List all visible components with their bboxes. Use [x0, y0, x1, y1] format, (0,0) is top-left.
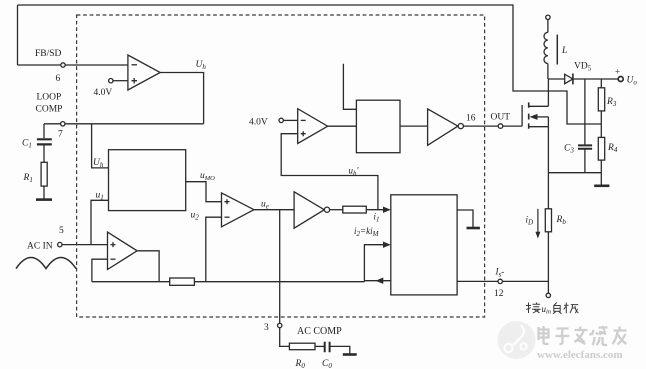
svg-text:u1: u1 — [96, 191, 104, 202]
capacitor C1 — [22, 124, 52, 163]
wire diode to output terminal — [573, 78, 618, 80]
svg-text:i1: i1 — [374, 212, 380, 224]
svg-text:uin: uin — [542, 304, 552, 316]
wire lower stub with left arrow at box2 — [364, 280, 390, 282]
arrowhead i2 into box2 — [383, 242, 391, 248]
wire Is- from box2 to sense node — [457, 280, 548, 282]
arrowhead pointing left on lower stub — [376, 278, 384, 284]
wire uh' from i1 junction up to A4 noninverting input — [281, 134, 378, 210]
op-amp A3 current error comparator — [222, 193, 255, 227]
resistor R3 — [598, 79, 617, 137]
inductor L — [544, 20, 567, 80]
电 — [539, 326, 549, 344]
wire Rb to bottom terminal — [547, 232, 549, 293]
svg-text:uMO: uMO — [200, 171, 215, 182]
svg-text:AC IN: AC IN — [27, 242, 53, 252]
wire box3 to inverter INV2 — [400, 125, 428, 127]
wire resistor to box2 input — [366, 209, 384, 211]
ground after C0 — [343, 353, 357, 356]
op-amp A2 AC input buffer — [108, 232, 138, 269]
pin 6 terminal FB/SD — [35, 49, 65, 84]
wire resistor to i2 corner — [194, 281, 364, 283]
svg-text:C0: C0 — [322, 359, 332, 369]
wire U1 output loop to pin 7 line — [160, 73, 203, 124]
ground below R4 — [594, 173, 609, 186]
wire A2 feedback to inverting input — [92, 259, 108, 282]
svg-text:u2: u2 — [191, 211, 200, 222]
wire C0 to ground — [331, 346, 350, 353]
svg-text:C1: C1 — [22, 139, 32, 150]
svg-text:Is-: Is- — [495, 267, 505, 279]
wire inverter to resistor — [330, 209, 343, 211]
svg-text:12: 12 — [494, 289, 504, 299]
接 — [526, 303, 541, 314]
svg-text:4.0V: 4.0V — [94, 88, 113, 98]
svg-text:www.elecfans.com: www.elecfans.com — [537, 349, 623, 361]
4.0V reference terminal for U1 — [94, 79, 128, 99]
svg-text:FB/SD: FB/SD — [35, 49, 62, 59]
wire A2 output down to summing line — [137, 251, 159, 282]
svg-text:4.0V: 4.0V — [249, 118, 268, 128]
wire Uh into multiplier box — [92, 124, 109, 168]
svg-text:Uh: Uh — [196, 60, 207, 71]
wire pin3 to R0 — [280, 328, 290, 347]
svg-text:COMP: COMP — [36, 105, 63, 115]
wire long bottom line u2 — [92, 281, 170, 283]
wire R0 to C0 — [315, 345, 324, 347]
wire drain to inductor-diode node — [547, 79, 549, 106]
current iD arrow — [526, 209, 541, 239]
capacitor C3 — [564, 144, 592, 173]
watermark text 电子发烧友 (hand-drawn CJK) — [539, 326, 627, 345]
wire stub into logic box top — [343, 64, 356, 110]
烧 — [590, 326, 608, 345]
multiplier block box1 — [109, 150, 186, 211]
svg-text:+: + — [615, 67, 620, 77]
logic block box3 — [356, 100, 400, 153]
svg-text:7: 7 — [58, 130, 63, 140]
svg-text:6: 6 — [56, 74, 61, 84]
op-amp U1 error comparator — [128, 55, 160, 90]
svg-text:16: 16 — [466, 114, 476, 124]
rectified sine symbol — [16, 258, 76, 269]
极 — [564, 303, 579, 314]
pin 7 terminal LOOP COMP — [36, 93, 66, 140]
wire OUT to MOSFET gate — [503, 125, 522, 127]
label: connect to uin negative terminal (hand-drawn CJK) — [526, 303, 578, 316]
svg-text:3: 3 — [264, 323, 269, 333]
arrowhead i1 into box2 — [383, 207, 391, 213]
子 — [556, 329, 570, 345]
inverter INV2 output driver — [428, 109, 464, 145]
svg-text:Rb: Rb — [556, 215, 567, 226]
watermark logo circle — [498, 321, 536, 359]
wire A4 output to logic box — [328, 125, 357, 127]
capacitor C0 — [322, 342, 332, 369]
supply terminal at top of inductor — [546, 15, 550, 19]
wire left vertical from top wire to pin 6 — [17, 5, 19, 65]
resistor on u2 line — [170, 278, 195, 285]
wire MOSFET source down to Rb — [547, 127, 549, 209]
负 — [553, 303, 562, 314]
svg-text:5: 5 — [59, 226, 64, 236]
resistor R4 — [598, 137, 618, 172]
svg-text:VD5: VD5 — [574, 62, 592, 73]
pin 3 terminal AC COMP — [264, 323, 342, 337]
svg-text:R3: R3 — [606, 97, 617, 108]
svg-text:AC COMP: AC COMP — [297, 326, 342, 337]
resistor R0 — [289, 343, 315, 369]
wire u2 up to A3 inverting input — [206, 217, 222, 282]
diode VD5 — [548, 62, 591, 85]
resistor on i1 line — [343, 206, 367, 213]
transistor Q1 power MOSFET — [522, 102, 548, 128]
svg-text:iD: iD — [526, 215, 534, 227]
output terminal Uo — [615, 67, 637, 87]
pin 16 terminal OUT — [491, 113, 511, 129]
pin 12 terminal Is- — [494, 267, 504, 300]
bottom terminal to uin negative — [546, 293, 550, 297]
svg-text:C3: C3 — [564, 144, 574, 155]
wire to capacitor C3 — [584, 79, 586, 145]
resistor R1 — [23, 162, 48, 199]
dashed IC boundary box — [77, 15, 485, 317]
svg-text:i2=kiM: i2=kiM — [354, 226, 380, 238]
ground below R1 — [36, 198, 52, 201]
wire feedback top: FB/SD to R3/R4 divider junction — [18, 5, 602, 124]
svg-text:ue: ue — [261, 200, 269, 211]
svg-text:OUT: OUT — [491, 113, 511, 123]
svg-text:L: L — [561, 46, 567, 56]
svg-text:R0: R0 — [295, 359, 306, 369]
wire multiplier output uMO to A3 — [186, 182, 222, 202]
4.0V reference terminal for A4 — [249, 118, 298, 128]
wire u1 from AC IN line up into multiplier — [91, 200, 109, 244]
wire bottom rail MOSFET source to ground — [548, 172, 601, 174]
ground stub at box2 top right — [457, 210, 480, 228]
wire pin 3 AC COMP from ue line down — [279, 210, 281, 324]
svg-text:R1: R1 — [23, 173, 33, 184]
svg-text:LOOP: LOOP — [37, 93, 62, 103]
wire i2 branch up into box2 — [364, 245, 384, 282]
wire ue from A3 to inverter — [254, 209, 294, 211]
wire AC IN to comparator A2 — [62, 244, 108, 246]
wire INV2 to OUT terminal — [463, 125, 498, 127]
u_in — [542, 304, 552, 316]
inverter INV1 — [294, 192, 330, 228]
svg-text:Uo: Uo — [627, 76, 638, 87]
svg-text:R4: R4 — [607, 143, 618, 154]
resistor Rb current sense — [545, 209, 566, 232]
pin 5 terminal AC IN — [27, 226, 64, 252]
svg-text:Uh: Uh — [93, 158, 104, 169]
友 — [613, 327, 627, 345]
PWM control block box2 — [391, 195, 457, 295]
发 — [575, 327, 588, 345]
op-amp A4 restart comparator — [298, 109, 328, 144]
wire pin 7 LOOP COMP line — [44, 123, 204, 125]
wire pin6 to U1 inverting input — [18, 64, 128, 66]
